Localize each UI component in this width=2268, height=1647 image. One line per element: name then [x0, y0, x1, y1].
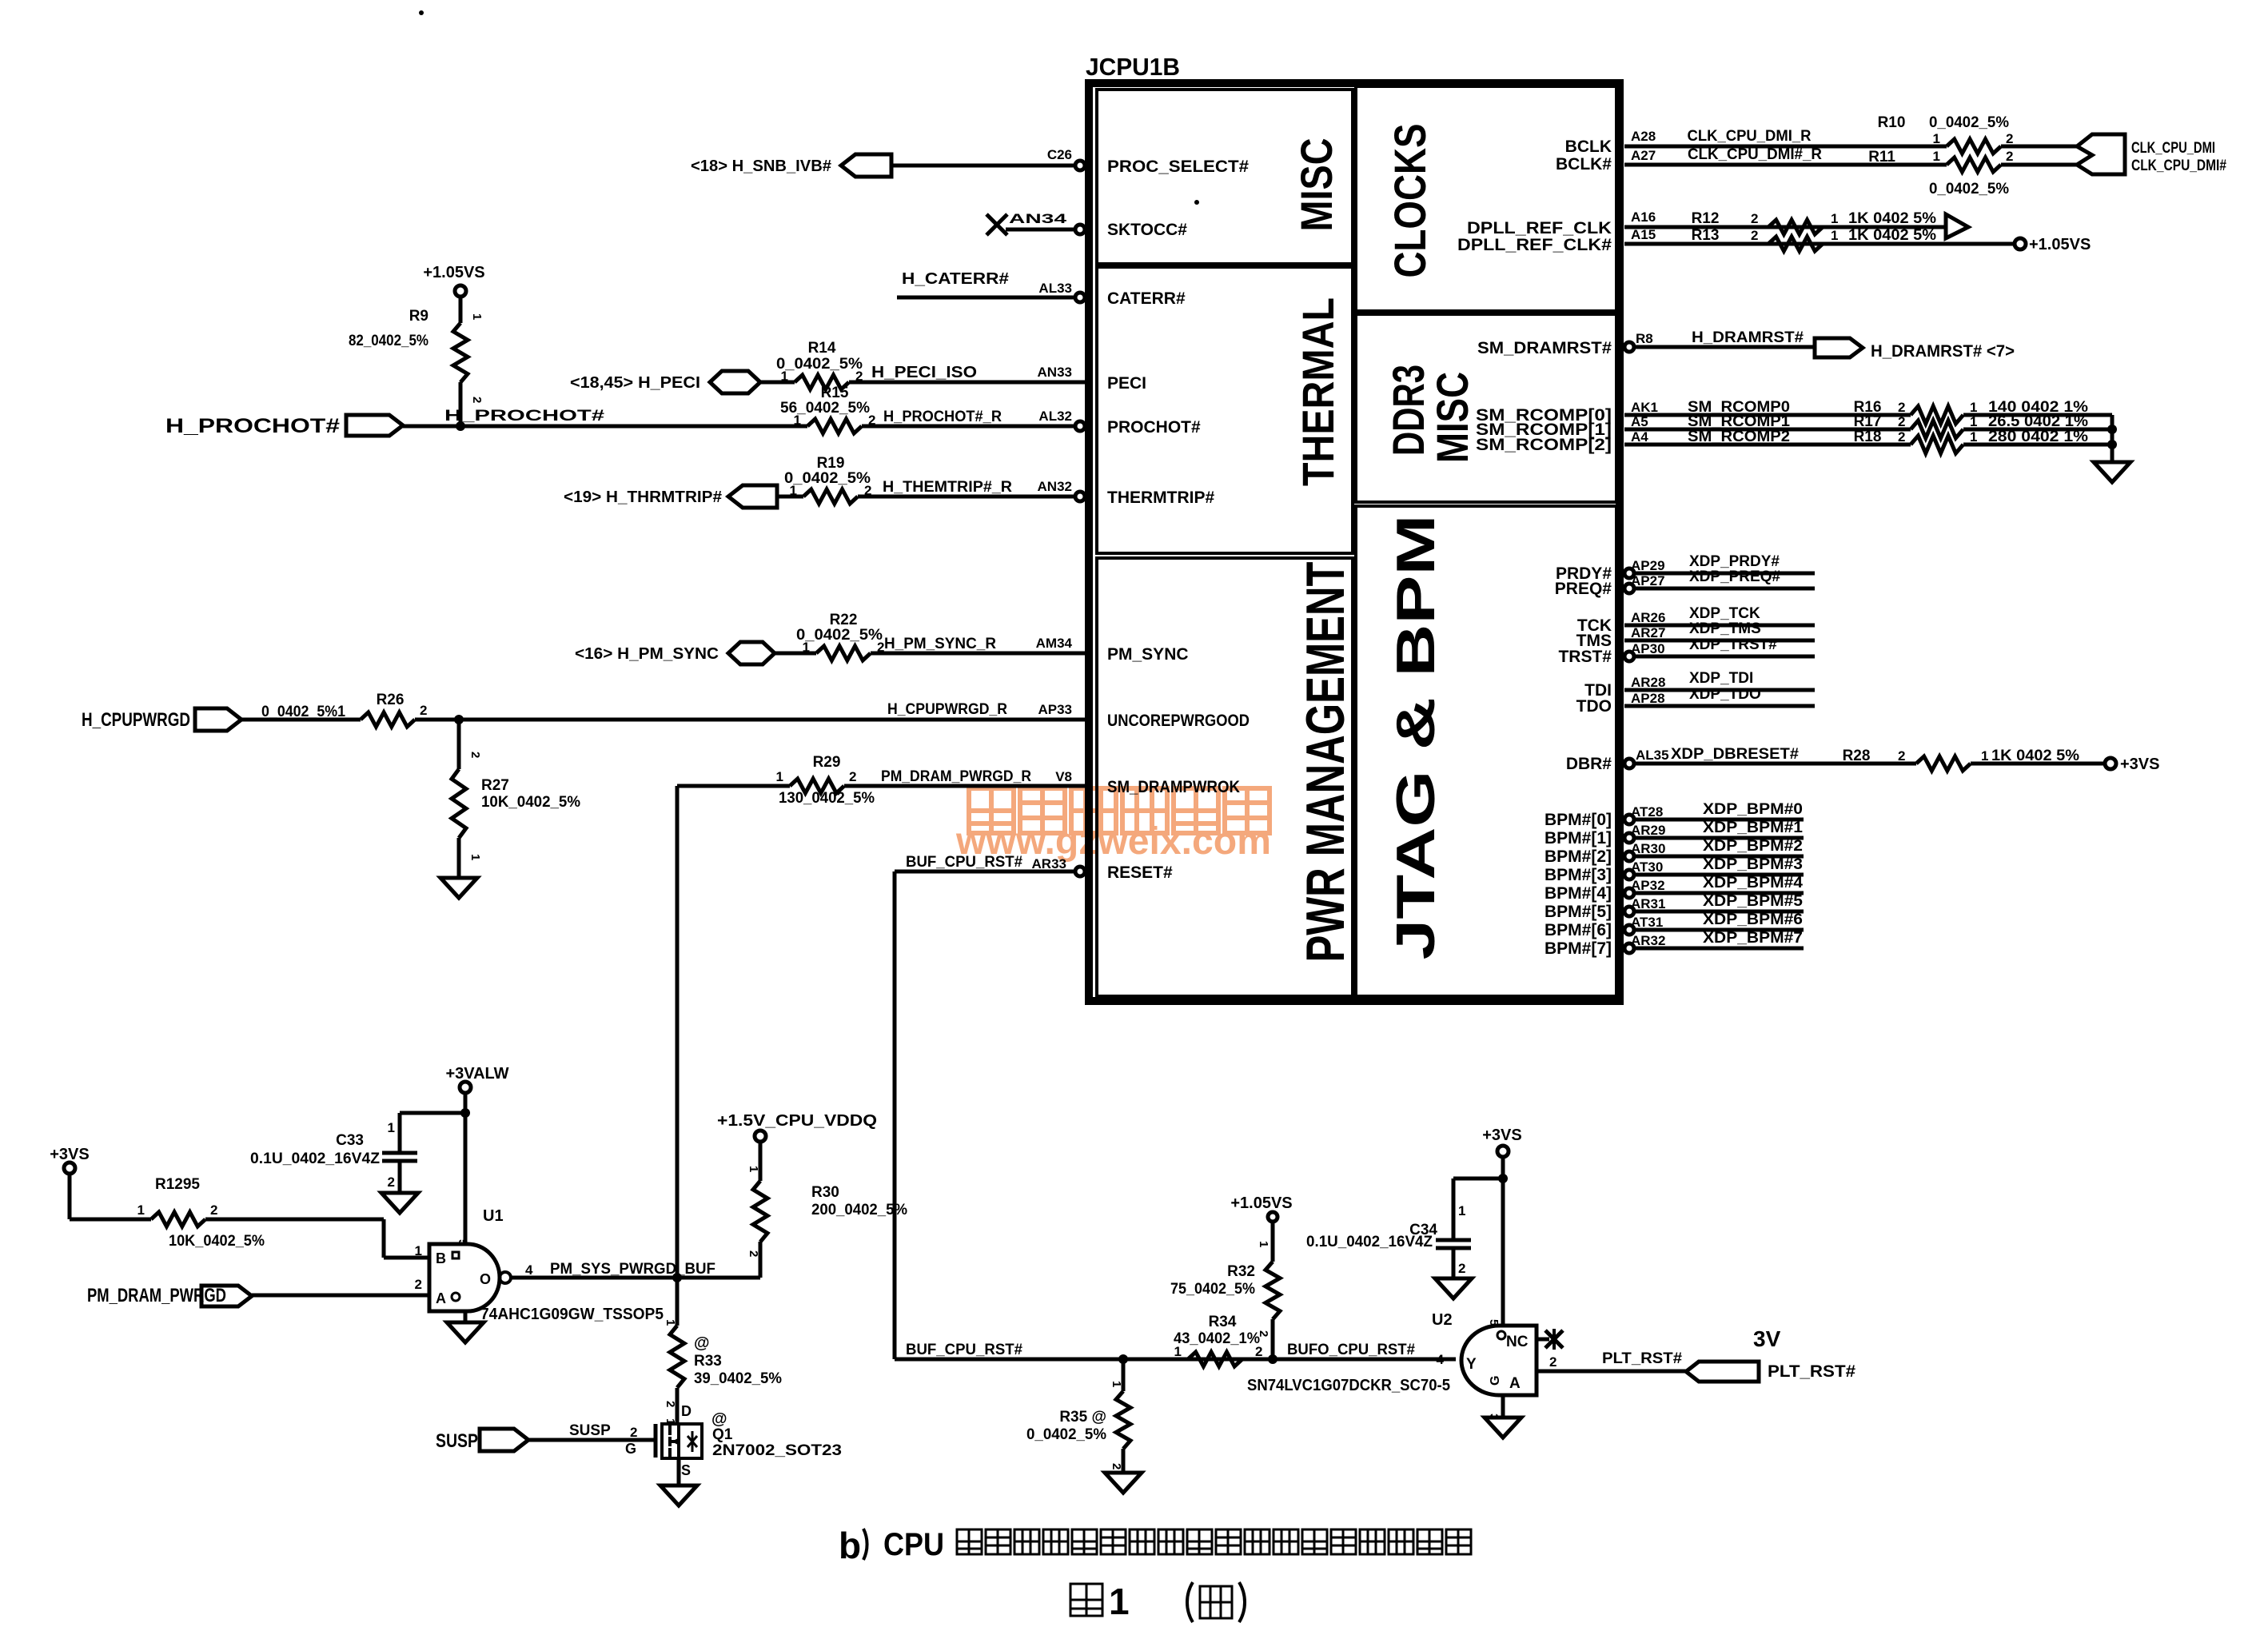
wire H_CATERR# to pin AL33 [897, 296, 1075, 300]
wire to rcomp ground bus [1963, 428, 2112, 432]
svg-text:SUSP: SUSP [569, 1422, 611, 1439]
svg-text:2: 2 [1898, 414, 1905, 429]
wire R1295 to U1 pin B [205, 1218, 384, 1222]
svg-text:0_0402_5%: 0_0402_5% [776, 356, 863, 373]
IC section box JTAG & BPM [1356, 506, 1616, 996]
svg-text:O: O [480, 1271, 491, 1287]
svg-text:2: 2 [388, 1174, 395, 1190]
connector CLK_CPU_DMI / CLK_CPU_DMI# [2077, 134, 2125, 174]
U1 output bubble [500, 1272, 511, 1283]
svg-text:BPM#[1]: BPM#[1] [1545, 829, 1612, 847]
svg-text:1: 1 [1831, 211, 1838, 226]
wire to R22 [775, 652, 816, 656]
svg-text:XDP_BPM#3: XDP_BPM#3 [1703, 856, 1803, 873]
svg-text:AL35: AL35 [1636, 748, 1669, 763]
scan artifact dots [419, 10, 424, 15]
svg-text:AM34: AM34 [1036, 636, 1073, 651]
svg-text:AN32: AN32 [1038, 479, 1072, 494]
wire H_CPUPWRGD_R to pin AP33 [415, 718, 1086, 722]
svg-text:AP33: AP33 [1038, 702, 1072, 717]
svg-text:1: 1 [1458, 1203, 1465, 1218]
svg-text:0_0402_5%: 0_0402_5% [1929, 181, 2009, 197]
svg-text:200_0402_5%: 200_0402_5% [811, 1202, 907, 1218]
resistor R27 10K_0402_5% [452, 769, 466, 838]
svg-text:CATERR#: CATERR# [1107, 289, 1186, 308]
svg-text:10K_0402_5%: 10K_0402_5% [481, 794, 580, 811]
svg-text:XDP_DBRESET#: XDP_DBRESET# [1671, 746, 1799, 763]
svg-text:AP27: AP27 [1631, 573, 1665, 588]
junction rcomp1 [2107, 425, 2117, 434]
svg-text:1: 1 [664, 1319, 677, 1326]
ground below C34 [1435, 1278, 1472, 1298]
svg-text:0_0402_5%: 0_0402_5% [1026, 1426, 1106, 1443]
svg-text:A: A [1509, 1375, 1521, 1392]
wire +3VS to R1295 [68, 1174, 72, 1219]
svg-text:+3VS: +3VS [1482, 1127, 1521, 1144]
svg-text:H_PROCHOT#: H_PROCHOT# [444, 408, 605, 425]
svg-text:2: 2 [415, 1277, 422, 1292]
svg-text:1: 1 [1933, 149, 1940, 164]
svg-text:AR33: AR33 [1032, 856, 1066, 871]
wire H_PM_SYNC_R to pin AM34 [871, 652, 1086, 656]
svg-text:R32: R32 [1227, 1263, 1255, 1280]
svg-text:PROC_SELECT#: PROC_SELECT# [1107, 158, 1249, 176]
IC section box THERMAL [1097, 267, 1353, 553]
no-connect X on SKTOCC# [987, 214, 1007, 235]
svg-text:@: @ [694, 1334, 710, 1352]
svg-text:PLT_RST#: PLT_RST# [1602, 1350, 1682, 1367]
wire to capacitor C34 [1453, 1177, 1503, 1181]
svg-text:H_PROCHOT#: H_PROCHOT# [165, 415, 340, 437]
svg-text:SUSP: SUSP [436, 1430, 478, 1452]
svg-text:1: 1 [1970, 400, 1977, 415]
svg-text:3V: 3V [1753, 1326, 1781, 1351]
svg-text:1: 1 [138, 1202, 145, 1218]
svg-text:R18: R18 [1854, 429, 1882, 445]
svg-text:R12: R12 [1692, 210, 1720, 227]
svg-text:CLOCKS: CLOCKS [1385, 124, 1435, 278]
svg-text:2N7002_SOT23: 2N7002_SOT23 [712, 1442, 842, 1459]
resistor R32 75_0402_5% [1266, 1262, 1280, 1319]
connector H_DRAMRST# [1815, 338, 1863, 357]
svg-text:2: 2 [1751, 228, 1758, 243]
svg-text:AP30: AP30 [1631, 641, 1665, 656]
svg-text:XDP_TDO: XDP_TDO [1689, 686, 1761, 703]
svg-text:2: 2 [468, 752, 482, 758]
IC section box PWR MANAGEMENT [1097, 558, 1353, 996]
wire XDP_DBRESET# to R28 [1634, 762, 1916, 766]
power +3VS right of R28 [2105, 758, 2116, 769]
svg-text:2: 2 [1751, 211, 1758, 226]
svg-text:BPM#[2]: BPM#[2] [1545, 847, 1612, 866]
svg-text:1: 1 [1174, 1344, 1182, 1359]
wire PM_DRAM_PWRGD to U1 pin A [252, 1294, 429, 1298]
svg-text:+1.05VS: +1.05VS [423, 264, 484, 281]
svg-text:2: 2 [2006, 149, 2013, 164]
svg-text:PREQ#: PREQ# [1555, 580, 1612, 598]
svg-text:Y: Y [1466, 1356, 1477, 1373]
svg-text:AL32: AL32 [1038, 409, 1072, 424]
svg-text:1: 1 [790, 483, 797, 498]
svg-text:XDP_BPM#5: XDP_BPM#5 [1703, 893, 1803, 910]
svg-text:AR28: AR28 [1631, 675, 1665, 690]
wire R10 to connector [2001, 145, 2079, 149]
svg-text:R8: R8 [1636, 331, 1653, 346]
svg-text:BUF_CPU_RST#: BUF_CPU_RST# [906, 854, 1022, 871]
svg-text:JTAG & BPM: JTAG & BPM [1385, 515, 1446, 960]
svg-text:SM_RCOMP[2]: SM_RCOMP[2] [1476, 436, 1612, 454]
svg-text:BPM#[3]: BPM#[3] [1545, 866, 1612, 884]
svg-text:1: 1 [776, 769, 783, 784]
svg-text:1: 1 [1970, 414, 1977, 429]
wire H_DRAMRST# [1634, 345, 1815, 349]
svg-text:2: 2 [1898, 748, 1905, 764]
svg-text:43_0402_1%: 43_0402_1% [1174, 1330, 1260, 1347]
svg-text:R9: R9 [409, 308, 428, 325]
svg-text:PM_SYS_PWRGD_BUF: PM_SYS_PWRGD_BUF [550, 1261, 715, 1278]
connector PM_DRAM_PWRGD [201, 1286, 252, 1306]
svg-text:Q1: Q1 [712, 1426, 733, 1443]
ground below C33 [381, 1193, 418, 1213]
svg-text:XDP_BPM#4: XDP_BPM#4 [1703, 875, 1803, 891]
svg-text:AN34: AN34 [1009, 211, 1067, 226]
svg-text:R15: R15 [821, 385, 849, 401]
svg-text:39_0402_5%: 39_0402_5% [694, 1370, 782, 1387]
svg-text:CLK_CPU_DMI_R: CLK_CPU_DMI_R [1688, 128, 1812, 145]
svg-text:H_CPUPWRGD: H_CPUPWRGD [82, 709, 190, 731]
wire R30 to PM_SYS_PWRGD_BUF [759, 1242, 763, 1278]
wire R33 from junction [676, 1278, 680, 1326]
IC JCPU1B outer box [1089, 83, 1620, 1001]
svg-text:NC: NC [1506, 1334, 1529, 1350]
wire stub SKTOCC# AN34 [1006, 228, 1075, 232]
svg-text:R19: R19 [817, 455, 845, 472]
junction PM_SYS_PWRGD_BUF [672, 1273, 682, 1282]
svg-text:A: A [436, 1290, 446, 1306]
svg-text:PROCHOT#: PROCHOT# [1107, 418, 1201, 437]
svg-text:R14: R14 [808, 340, 836, 357]
wire H_PECI_ISO to pin AN33 [849, 381, 1086, 385]
svg-text:BPM#[6]: BPM#[6] [1545, 921, 1612, 939]
wire H_PROCHOT# to R15 [403, 425, 807, 429]
svg-text:BPM#[5]: BPM#[5] [1545, 903, 1612, 921]
svg-text:XDP_BPM#6: XDP_BPM#6 [1703, 911, 1803, 928]
svg-text:U1: U1 [483, 1207, 504, 1225]
svg-text:MISC: MISC [1291, 138, 1341, 232]
IC section box MISC [1097, 90, 1353, 264]
wire SUSP to Q1 gate [528, 1438, 656, 1442]
wire to rcomp ground bus [1963, 413, 2112, 417]
svg-text:0_0402_5%1: 0_0402_5%1 [261, 704, 345, 720]
svg-text:1K 0402 5%: 1K 0402 5% [1848, 210, 1936, 227]
pin PROCHOT# AL32 bubble [1075, 421, 1085, 431]
svg-text:DPLL_REF_CLK#: DPLL_REF_CLK# [1457, 236, 1612, 254]
SM_RCOMP ground bus [2111, 415, 2115, 462]
svg-text:1: 1 [1981, 748, 1988, 764]
svg-text:AN33: AN33 [1038, 365, 1072, 380]
wire to R32 [1271, 1222, 1275, 1262]
wire to R19 [777, 495, 803, 499]
resistor R35 0_0402_5% [1122, 1359, 1126, 1391]
svg-text:2: 2 [210, 1202, 217, 1218]
wire PM_SYS_PWRGD_BUF [511, 1276, 760, 1280]
capacitor C33 0.1U_0402_16V4Z [382, 1151, 417, 1155]
junction rcomp2 [2107, 440, 2117, 449]
svg-text:1: 1 [470, 313, 484, 320]
ground below Q1 [660, 1485, 697, 1505]
svg-text:SM_DRAMRST#: SM_DRAMRST# [1477, 339, 1612, 357]
svg-text:1: 1 [1257, 1241, 1270, 1247]
svg-text:BUF_CPU_RST#: BUF_CPU_RST# [906, 1342, 1022, 1358]
svg-text:1: 1 [1831, 228, 1838, 243]
svg-text:AT28: AT28 [1631, 804, 1663, 820]
svg-text:R30: R30 [811, 1184, 839, 1201]
svg-text:AP32: AP32 [1631, 878, 1665, 893]
pin THERMTRIP# AN32 bubble [1075, 492, 1085, 501]
open arrow on DPLL_REF_CLK [1946, 214, 1968, 238]
pin CATERR# AL33 bubble [1075, 293, 1085, 302]
svg-text:H_DRAMRST#: H_DRAMRST# [1692, 329, 1804, 346]
ground rcomp bus [2094, 462, 2130, 482]
svg-text:BPM#[7]: BPM#[7] [1545, 939, 1612, 958]
svg-text:2: 2 [1255, 1344, 1262, 1359]
wire H_PECI to R14 [760, 381, 795, 385]
svg-text:2: 2 [1549, 1354, 1557, 1370]
svg-text:DDR3: DDR3 [1383, 365, 1433, 456]
svg-text:RESET#: RESET# [1107, 863, 1173, 882]
wire R9 to H_PROCHOT# net [459, 382, 463, 426]
svg-text:<16> H_PM_SYNC: <16> H_PM_SYNC [575, 645, 719, 663]
resistor R9 82_0402_5% [453, 323, 468, 382]
svg-text:130_0402_5%: 130_0402_5% [779, 790, 875, 807]
svg-text:H_PROCHOT#_R: H_PROCHOT#_R [883, 409, 1002, 425]
svg-text:+3VALW: +3VALW [445, 1065, 508, 1083]
svg-text:<18,45> H_PECI: <18,45> H_PECI [570, 374, 700, 392]
svg-text:AR31: AR31 [1631, 896, 1665, 911]
svg-text:b: b [839, 1525, 861, 1566]
svg-text:H_PECI_ISO: H_PECI_ISO [871, 364, 977, 381]
svg-text:A5: A5 [1631, 414, 1648, 429]
svg-text:A27: A27 [1631, 148, 1656, 163]
svg-text:AR27: AR27 [1631, 625, 1665, 640]
svg-text:XDP_TDI: XDP_TDI [1689, 670, 1753, 687]
svg-text:R35 @: R35 @ [1059, 1409, 1106, 1426]
watermark gzweix orange text [969, 788, 1014, 833]
svg-text:2: 2 [849, 769, 856, 784]
svg-text:R10: R10 [1878, 114, 1906, 131]
wire R27 to junction [457, 720, 461, 769]
U2 NC no-connect X [1537, 1338, 1549, 1342]
ground below R27 [440, 878, 477, 898]
wire +3VS down to U2 [1501, 1157, 1505, 1326]
svg-text:74AHC1G09GW_TSSOP5: 74AHC1G09GW_TSSOP5 [480, 1306, 664, 1323]
svg-text:H_CPUPWRGD_R: H_CPUPWRGD_R [887, 701, 1007, 718]
svg-text:1K 0402 5%: 1K 0402 5% [1848, 227, 1936, 244]
svg-text:2: 2 [1898, 429, 1905, 445]
junction R35 [1118, 1354, 1128, 1364]
svg-text:JCPU1B: JCPU1B [1086, 53, 1180, 81]
svg-text:2: 2 [1458, 1261, 1465, 1276]
svg-text:+3VS: +3VS [2120, 756, 2159, 773]
svg-text:CLK_CPU_DMI#_R: CLK_CPU_DMI#_R [1688, 146, 1822, 163]
svg-text:0.1U_0402_16V4Z: 0.1U_0402_16V4Z [1306, 1234, 1433, 1250]
wire R32 to BUF wire [1271, 1319, 1275, 1359]
junction R26/R27 [454, 715, 464, 724]
IC section box CLOCKS [1356, 86, 1616, 311]
svg-text:U2: U2 [1432, 1311, 1453, 1329]
junction R9/H_PROCHOT# [456, 421, 465, 431]
wire R28 to +3VS [1971, 762, 2105, 766]
svg-text:SM_RCOMP1: SM_RCOMP1 [1688, 413, 1790, 430]
svg-text:4: 4 [525, 1262, 533, 1278]
pin PROC_SELECT# C26 bubble [1075, 161, 1085, 170]
svg-text:R1295: R1295 [155, 1176, 200, 1193]
svg-text:BUFO_CPU_RST#: BUFO_CPU_RST# [1287, 1342, 1415, 1358]
svg-text:BCLK#: BCLK# [1556, 155, 1612, 173]
junction R32/R34 [1268, 1354, 1277, 1364]
svg-text:XDP_BPM#7: XDP_BPM#7 [1703, 930, 1803, 947]
wire to rcomp ground bus [1963, 443, 2112, 447]
ground below R35 [1105, 1473, 1142, 1493]
svg-text:2: 2 [420, 703, 427, 718]
wire H_THEMTRIP#_R to pin AN32 [858, 495, 1075, 499]
svg-text:C26: C26 [1047, 147, 1072, 162]
svg-text:R17: R17 [1854, 413, 1882, 430]
svg-text:AL33: AL33 [1038, 281, 1072, 296]
wire to R26 [241, 718, 361, 722]
svg-text:CPU: CPU [883, 1527, 944, 1562]
svg-text:AT31: AT31 [1631, 915, 1663, 930]
svg-text:5: 5 [456, 1239, 469, 1246]
svg-text:H_CATERR#: H_CATERR# [902, 270, 1009, 288]
svg-text:G: G [625, 1441, 636, 1457]
wire R11 to connector [2001, 163, 2079, 167]
svg-text:G: G [1489, 1376, 1502, 1386]
resistor R30 200_0402_5% [753, 1181, 767, 1242]
wire corner BUF_CPU_RST# vertical [893, 871, 897, 1359]
svg-text:BCLK: BCLK [1565, 138, 1612, 156]
svg-text:PM_DRAM_PWRGD: PM_DRAM_PWRGD [87, 1285, 226, 1306]
svg-text:1: 1 [794, 413, 801, 428]
svg-text:R33: R33 [694, 1353, 722, 1370]
transistor Q1 2N7002_SOT23 [662, 1424, 702, 1458]
svg-text:R11: R11 [1868, 149, 1895, 165]
svg-text:R34: R34 [1209, 1314, 1237, 1330]
svg-text:1: 1 [1970, 429, 1977, 445]
svg-text:S: S [681, 1462, 691, 1478]
svg-text:SN74LVC1G07DCKR_SC70-5: SN74LVC1G07DCKR_SC70-5 [1247, 1377, 1450, 1394]
svg-text:R22: R22 [830, 612, 858, 628]
svg-text:R27: R27 [481, 777, 509, 794]
junction +3VALW/C33 [460, 1108, 470, 1118]
svg-text:XDP_TRST#: XDP_TRST# [1689, 636, 1777, 653]
svg-text:@: @ [711, 1410, 727, 1428]
power +1.05VS right [2015, 238, 2026, 249]
svg-text:1: 1 [803, 640, 810, 655]
wire BUF_CPU_RST# bottom [895, 1358, 1456, 1362]
svg-text:PECI: PECI [1107, 374, 1146, 393]
svg-text:2: 2 [1898, 400, 1905, 415]
svg-text:82_0402_5%: 82_0402_5% [349, 333, 428, 349]
svg-text:A28: A28 [1631, 129, 1656, 144]
svg-text:BPM#[4]: BPM#[4] [1545, 884, 1612, 903]
svg-text:1: 1 [415, 1243, 422, 1258]
svg-text:1: 1 [747, 1166, 760, 1172]
wire to capacitor C33 [400, 1111, 465, 1115]
svg-text:+1.05VS: +1.05VS [1230, 1194, 1292, 1212]
svg-text:SM_RCOMP2: SM_RCOMP2 [1688, 429, 1790, 445]
svg-text:<18> H_SNB_IVB#: <18> H_SNB_IVB# [691, 158, 831, 175]
svg-text:AP29: AP29 [1631, 558, 1665, 573]
svg-text:D: D [681, 1403, 692, 1419]
svg-text:AR32: AR32 [1631, 933, 1665, 948]
svg-text:+1.05VS: +1.05VS [2029, 236, 2091, 253]
svg-text:75_0402_5%: 75_0402_5% [1170, 1281, 1255, 1298]
svg-text:2: 2 [2006, 131, 2013, 146]
wire +3VALW down [464, 1093, 468, 1244]
wire H_SNB_IVB# to pin C26 [891, 164, 1075, 168]
wire R33 to Q1 drain [676, 1388, 680, 1424]
svg-text:2: 2 [470, 397, 484, 403]
svg-text:AP28: AP28 [1631, 691, 1665, 706]
svg-text:H_DRAMRST# <7>: H_DRAMRST# <7> [1871, 342, 2015, 361]
wire +1.05VS to R9 [459, 297, 463, 323]
svg-text:0_0402_5%: 0_0402_5% [784, 470, 871, 487]
connector PLT_RST# [1686, 1362, 1759, 1382]
svg-text:2: 2 [1257, 1330, 1270, 1337]
svg-text:1: 1 [388, 1120, 395, 1135]
svg-text:XDP_TCK: XDP_TCK [1689, 605, 1760, 622]
svg-text:R28: R28 [1843, 748, 1871, 764]
svg-text:<19> H_THRMTRIP#: <19> H_THRMTRIP# [564, 489, 722, 506]
svg-text:0.1U_0402_16V4Z: 0.1U_0402_16V4Z [250, 1151, 380, 1167]
IC section box DDR3 MISC [1356, 314, 1616, 502]
svg-text:2: 2 [1110, 1463, 1123, 1470]
svg-text:MISC: MISC [1427, 372, 1477, 463]
caption line 2 (figure number) [1070, 1584, 1102, 1616]
svg-text:4: 4 [1437, 1352, 1445, 1367]
svg-text:XDP_BPM#0: XDP_BPM#0 [1703, 801, 1803, 818]
wire H_PROCHOT#_R to pin AL32 [862, 425, 1075, 429]
svg-text:CLK_CPU_DMI#: CLK_CPU_DMI# [2131, 158, 2226, 174]
wire PM_DRAM_PWRGD_R to pin V8 [844, 784, 1086, 788]
wire to R30 [759, 1142, 763, 1181]
svg-text:XDP_PREQ#: XDP_PREQ# [1689, 568, 1780, 585]
wire R27 to ground [457, 838, 461, 878]
svg-text:B: B [436, 1250, 446, 1266]
wire corner PM_SYS_PWRGD_BUF vertical to R29 [676, 786, 680, 1278]
svg-text:AR30: AR30 [1631, 841, 1665, 856]
U1 ground pin 3 [464, 1311, 468, 1322]
svg-text:AT30: AT30 [1631, 859, 1663, 875]
svg-text:A4: A4 [1631, 429, 1648, 445]
svg-text:PLT_RST#: PLT_RST# [1768, 1362, 1855, 1381]
svg-text:1: 1 [1109, 1581, 1130, 1622]
svg-text:PWR MANAGEMENT: PWR MANAGEMENT [1295, 562, 1356, 963]
svg-text:R13: R13 [1692, 227, 1720, 244]
junction C34 branch [1498, 1174, 1508, 1183]
svg-text:H_PM_SYNC_R: H_PM_SYNC_R [884, 636, 996, 652]
svg-text:SKTOCC#: SKTOCC# [1107, 221, 1187, 239]
svg-text:THERMAL: THERMAL [1293, 297, 1343, 486]
svg-text:PM_DRAM_PWRGD_R: PM_DRAM_PWRGD_R [881, 768, 1031, 785]
svg-text:H_THEMTRIP#_R: H_THEMTRIP#_R [883, 479, 1012, 496]
svg-text:R26: R26 [377, 692, 405, 708]
svg-text:XDP_BPM#2: XDP_BPM#2 [1703, 838, 1803, 855]
svg-text:5: 5 [1487, 1319, 1501, 1326]
buffer U2 SN74LVC1G07DCKR [1461, 1326, 1537, 1395]
svg-text:10K_0402_5%: 10K_0402_5% [169, 1233, 265, 1250]
